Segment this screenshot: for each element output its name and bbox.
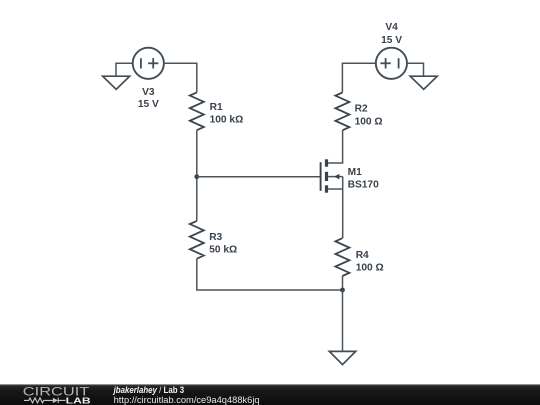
svg-text:LAB: LAB <box>66 395 91 405</box>
channel bar source <box>325 185 328 192</box>
svg-text:100 Ω: 100 Ω <box>355 116 383 127</box>
svg-text:http://circuitlab.com/ce9a4q48: http://circuitlab.com/ce9a4q488k6jq <box>114 395 260 405</box>
voltage source V3 <box>133 48 164 79</box>
node junction dot (bottom node) <box>340 288 345 293</box>
svg-text:BS170: BS170 <box>348 179 379 190</box>
svg-text:15 V: 15 V <box>138 99 159 110</box>
svg-text:V4: V4 <box>385 22 398 33</box>
svg-text:15 V: 15 V <box>381 35 402 46</box>
svg-text:50 kΩ: 50 kΩ <box>209 244 237 255</box>
svg-text:R4: R4 <box>356 250 369 261</box>
wire V4 negative terminal to ground corner <box>407 63 424 76</box>
channel bar drain <box>325 159 328 166</box>
R3 labels <box>209 232 237 256</box>
R2 labels <box>355 104 383 128</box>
transistor M1 (NMOS BS170) <box>321 159 343 192</box>
svg-text:R3: R3 <box>209 232 222 243</box>
wire M1 source to R4 top <box>342 189 344 238</box>
CircuitLab logo schematic icon (resistor + diode) <box>24 398 66 403</box>
body lead with arrow <box>328 176 343 178</box>
source lead <box>328 188 343 190</box>
resistor R4 <box>335 238 349 276</box>
wire R1 bottom to R3 top (through gate node) <box>196 130 198 221</box>
svg-text:100 Ω: 100 Ω <box>356 263 384 274</box>
ground (bottom) <box>329 351 355 364</box>
wire V4 positive terminal to R2 top <box>342 63 375 92</box>
V3 name and value labels <box>138 87 159 110</box>
wire R4 bottom to bottom node <box>342 276 344 290</box>
wire gate node to M1 gate <box>197 176 321 178</box>
svg-text:R2: R2 <box>355 104 368 115</box>
wire R3 bottom to bottom rail <box>197 259 343 290</box>
svg-text:100 kΩ: 100 kΩ <box>210 115 244 126</box>
R1 labels <box>210 102 244 126</box>
svg-text:M1: M1 <box>348 167 362 178</box>
gate bar <box>320 162 322 191</box>
resistor R1 <box>190 92 204 130</box>
channel bar body <box>325 172 328 181</box>
wire R2 bottom to M1 drain <box>328 130 343 163</box>
wire V3 positive terminal to R1 top <box>164 63 197 92</box>
svg-text:jbakerlahey / Lab 3: jbakerlahey / Lab 3 <box>113 385 184 395</box>
R4 labels <box>356 250 384 274</box>
svg-text:R1: R1 <box>210 102 223 113</box>
svg-text:V3: V3 <box>142 87 155 98</box>
ground (under V4) <box>410 76 437 89</box>
voltage source V4 <box>376 48 407 79</box>
node junction dot (gate node) <box>194 174 199 179</box>
ground (under V3) <box>103 76 130 89</box>
V4 name and value labels <box>381 22 402 46</box>
wire bottom node to ground <box>342 290 344 352</box>
wire V3 negative terminal to ground corner <box>116 63 133 76</box>
resistor R2 <box>335 93 349 131</box>
resistor R3 <box>190 221 204 259</box>
M1 labels <box>348 167 379 191</box>
